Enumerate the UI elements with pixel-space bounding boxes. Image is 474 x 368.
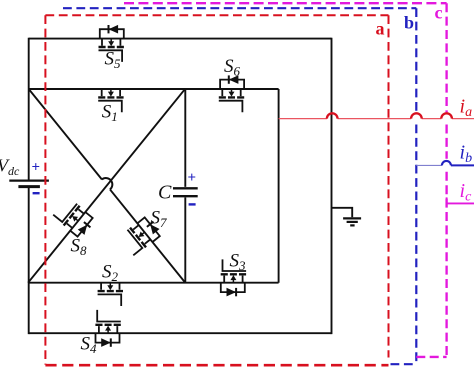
hop of phase b line over box c [442, 161, 451, 166]
hop of phase a line over box b [411, 113, 422, 118]
svg-text:+: + [32, 160, 41, 176]
wire phase c output line [447, 197, 474, 203]
capacitor minus sign [189, 203, 196, 205]
wire inner right rail [278, 89, 280, 283]
wire diagonal (S7 arm, with crossover hop) [29, 89, 186, 283]
svg-text:C: C [158, 182, 172, 204]
svg-text:S6: S6 [224, 56, 241, 79]
svg-text:S7: S7 [151, 208, 168, 231]
capacitor C plates and leads [173, 89, 198, 283]
svg-text:S5: S5 [105, 49, 122, 72]
battery minus sign [33, 192, 40, 194]
wire hop over crossing [102, 178, 112, 189]
wire lower mid rail (S2/S3 branch) [28, 282, 279, 284]
transistor S2 [98, 283, 123, 306]
svg-text:+: + [188, 170, 197, 186]
svg-text:S8: S8 [71, 236, 88, 259]
svg-text:c: c [435, 3, 443, 23]
wire phase b output line [416, 164, 442, 166]
svg-text:a: a [376, 19, 385, 39]
svg-text:ia: ia [460, 96, 473, 121]
wire bottom rail (S4 branch) [29, 332, 332, 334]
svg-text:ib: ib [460, 142, 473, 167]
transistor S4 [95, 310, 120, 347]
hop of phase a line over outer rail [327, 113, 338, 118]
transistor S6 [219, 75, 244, 112]
transistor S1 [98, 89, 123, 112]
wire upper mid rail (S1/S6 branch) [29, 88, 279, 90]
svg-text:b: b [404, 13, 414, 33]
svg-text:S1: S1 [102, 102, 118, 125]
svg-text:S4: S4 [81, 334, 98, 357]
svg-text:S2: S2 [102, 262, 119, 285]
transistor S8 [52, 196, 97, 239]
wire outer right rail [331, 38, 333, 334]
phase box a (red dashed) [45, 15, 388, 365]
wire diagonal (S8 arm, straight through crossing) [28, 89, 185, 283]
svg-text:ic: ic [460, 180, 473, 205]
transistor S5 [99, 25, 124, 62]
wire top rail (S5 branch) [29, 38, 332, 40]
wire phase a output line [279, 118, 474, 120]
wire left rail (split at battery) [28, 38, 30, 334]
ground [332, 208, 362, 226]
transistor S3 [221, 259, 246, 296]
transistor S7 [118, 214, 163, 257]
phase box b (blue dashed) [63, 8, 416, 364]
battery Vdc plates [9, 181, 49, 187]
svg-text:Vdc: Vdc [0, 156, 20, 179]
hop of phase a line over box c [441, 113, 452, 118]
svg-text:S3: S3 [230, 251, 247, 274]
phase box c (magenta dashed) [124, 3, 447, 357]
